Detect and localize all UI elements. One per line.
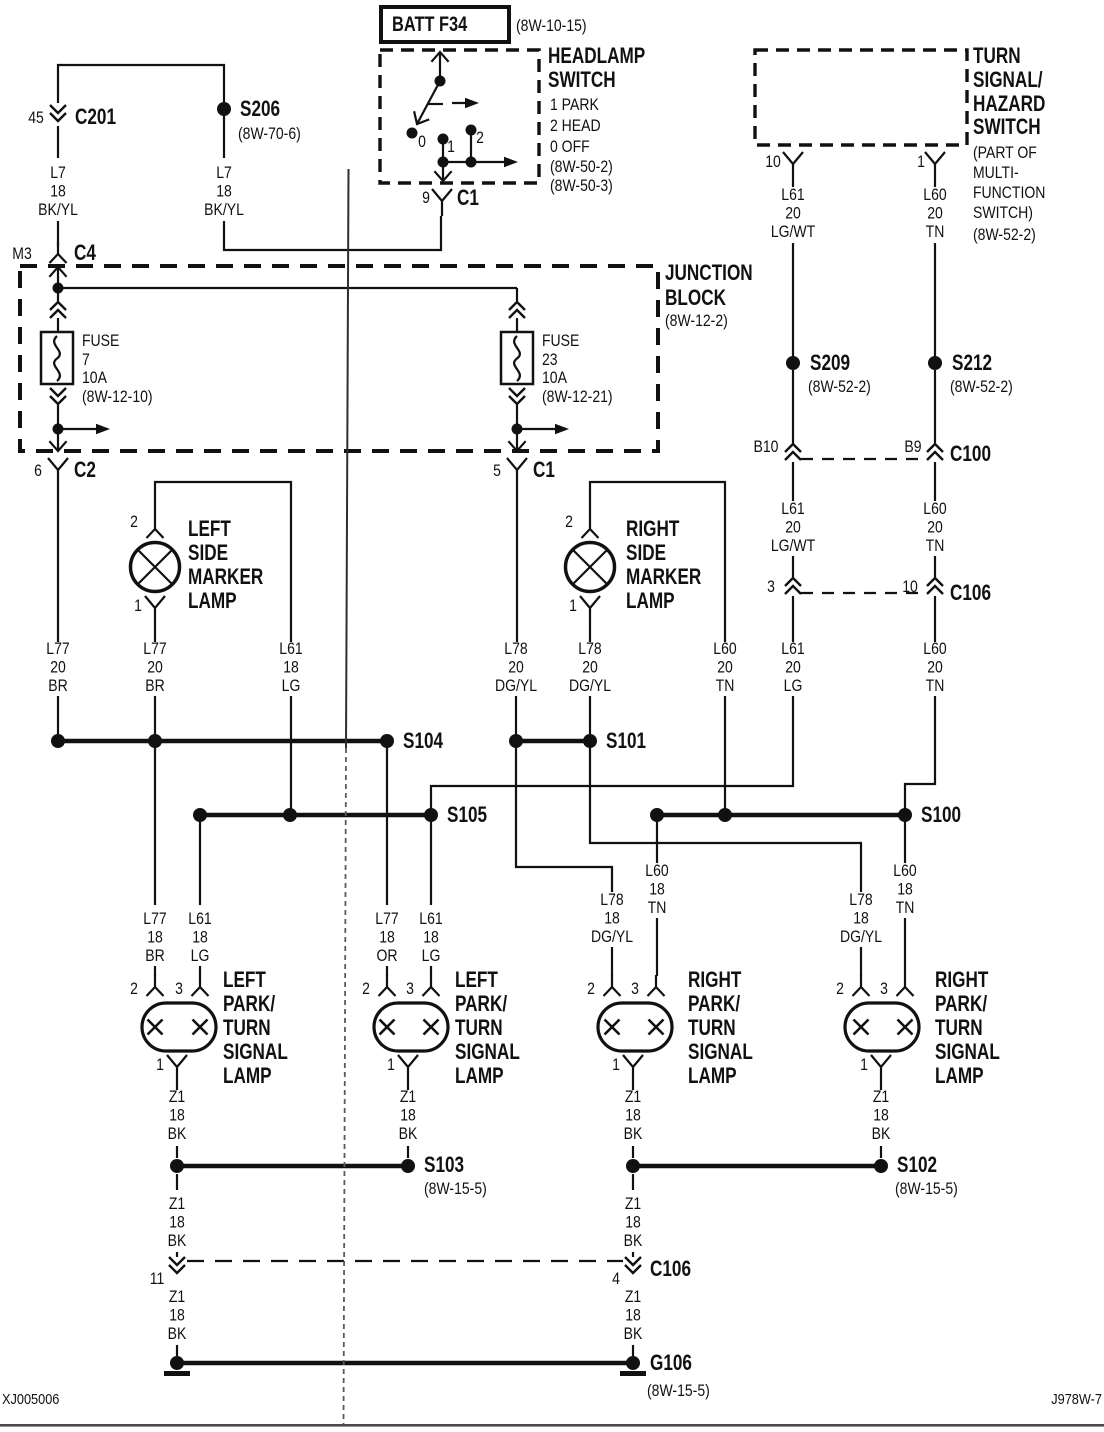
svg-text:HAZARD: HAZARD (973, 92, 1045, 117)
svg-text:DG/YL: DG/YL (495, 677, 537, 695)
svg-text:10A: 10A (82, 369, 108, 387)
svg-text:LAMP: LAMP (935, 1064, 984, 1089)
right park/turn signal lamp pin 2 (853, 975, 870, 996)
svg-text:(8W-12-2): (8W-12-2) (665, 312, 728, 330)
splice S209 (786, 356, 800, 370)
svg-text:L60: L60 (923, 640, 946, 658)
wire - Z1 18 BK below lamp lamp2 (407, 1082, 409, 1090)
wire - Z1 below S102 (632, 1174, 634, 1190)
svg-text:L77: L77 (143, 640, 166, 658)
right park/turn signal lamp caption (lamp3) (688, 968, 753, 1089)
junction dot 2 (466, 157, 477, 168)
wire - top feed from C201 to S206 (58, 65, 224, 103)
svg-text:J978W-7: J978W-7 (1051, 1390, 1102, 1407)
switch wiper pivot dot (435, 76, 446, 87)
svg-text:18: 18 (50, 182, 66, 200)
svg-text:L61: L61 (188, 910, 211, 928)
svg-text:L7: L7 (50, 164, 66, 182)
svg-text:L78: L78 (504, 640, 527, 658)
svg-text:L60: L60 (713, 640, 736, 658)
right park/turn signal lamp caption (lamp4) (935, 968, 1000, 1089)
svg-text:TN: TN (648, 899, 667, 917)
svg-text:FUSE: FUSE (82, 332, 119, 350)
svg-text:C106: C106 (650, 1257, 691, 1282)
svg-text:RIGHT: RIGHT (626, 517, 679, 542)
left park/turn signal lamp pin 1 (lamp1) (167, 1055, 187, 1082)
connector C106 pin 3 (785, 578, 801, 594)
wire - down to S209 (792, 243, 794, 358)
svg-text:XJ005006: XJ005006 (2, 1390, 60, 1407)
svg-text:S102: S102 (897, 1153, 937, 1178)
left park/turn signal lamp pin 3 (423, 975, 440, 996)
right park/turn signal lamp pin 1 (lamp3) (623, 1055, 643, 1082)
svg-text:2: 2 (130, 980, 138, 998)
wire - C1 pin 5 down to S101 (516, 485, 518, 642)
ground symbol left (164, 1371, 190, 1376)
svg-text:1 PARK: 1 PARK (550, 96, 600, 114)
wire - L60 18 TN from S100 to right lamp 2 pin 3 (904, 815, 906, 863)
fold line (dashed lower) (344, 748, 347, 1424)
svg-text:S212: S212 (952, 351, 992, 376)
svg-text:SIDE: SIDE (626, 541, 666, 566)
svg-text:18: 18 (169, 1306, 185, 1324)
splice S101 bus (516, 739, 590, 744)
svg-text:TN: TN (926, 677, 945, 695)
wire - to S104 (154, 696, 156, 741)
right side marker lamp bulb (566, 543, 615, 592)
svg-text:10A: 10A (542, 369, 568, 387)
left park/turn signal lamp pin 2 (147, 975, 164, 996)
svg-text:PARK/: PARK/ (935, 992, 988, 1017)
svg-text:LG/WT: LG/WT (771, 537, 815, 555)
bottom rule (0, 1424, 1104, 1427)
switch position 2 terminal (466, 125, 477, 136)
svg-text:TURN: TURN (223, 1016, 271, 1041)
svg-text:2: 2 (362, 980, 370, 998)
svg-text:RIGHT: RIGHT (935, 968, 988, 993)
connector C201 pin 45 (50, 105, 66, 121)
splice S100 bus (657, 813, 905, 818)
svg-text:18: 18 (147, 928, 163, 946)
svg-text:LG: LG (784, 677, 803, 695)
switch detent tick (427, 103, 443, 105)
svg-text:1: 1 (860, 1056, 868, 1074)
fold line (solid upper) (346, 169, 349, 748)
connector C1 pin 9 (432, 189, 452, 216)
turn signal switch caption (973, 44, 1045, 244)
svg-text:(8W-52-2): (8W-52-2) (950, 378, 1013, 396)
svg-text:2: 2 (476, 129, 484, 147)
right side marker lamp pin 2 (582, 517, 599, 538)
wire - Z1 18 BK below lamp lamp4 (880, 1082, 882, 1090)
svg-text:B9: B9 (904, 438, 921, 456)
left side marker lamp pin 1 (145, 596, 165, 623)
wire - L7 below S206 (223, 116, 225, 158)
ground symbol right (620, 1371, 646, 1376)
feed arrow from C4 into junction block (57, 267, 59, 288)
wire - L60 20 TN to S100 (724, 696, 726, 815)
svg-text:18: 18 (625, 1106, 641, 1124)
switch position 1 terminal (438, 134, 449, 145)
wire - L60 TN to splice S100 (905, 696, 935, 815)
right side marker lamp caption (626, 517, 701, 614)
svg-text:20: 20 (785, 658, 801, 676)
svg-text:L61: L61 (419, 910, 442, 928)
wire - junction block internal bus (58, 287, 517, 289)
fuse 23 upper contact (516, 288, 518, 301)
connector C2 pin 6 (48, 458, 68, 485)
wire - to S101 (589, 696, 591, 741)
svg-text:G106: G106 (650, 1351, 692, 1376)
svg-text:L61: L61 (781, 500, 804, 518)
svg-text:B10: B10 (754, 438, 779, 456)
fuse F23 (501, 332, 533, 384)
svg-text:LG/WT: LG/WT (771, 223, 815, 241)
svg-text:C1: C1 (457, 186, 479, 211)
svg-text:SWITCH): SWITCH) (973, 204, 1033, 222)
svg-text:2: 2 (130, 513, 138, 531)
svg-text:MARKER: MARKER (626, 565, 701, 590)
left park/turn signal lamp pin 3 (192, 975, 209, 996)
svg-text:1: 1 (612, 1056, 620, 1074)
wire - switch output arrow right (443, 161, 510, 163)
svg-text:4: 4 (612, 1270, 620, 1288)
wire - L61 LG below C106 (792, 596, 794, 642)
node - junction block feed dot (53, 283, 64, 294)
wire - L77 18 OR from S104 to left lamp 2 pin 2 (386, 741, 388, 905)
svg-text:LAMP: LAMP (188, 589, 237, 614)
svg-text:20: 20 (50, 658, 66, 676)
svg-text:L61: L61 (279, 640, 302, 658)
svg-text:BK: BK (399, 1125, 418, 1143)
svg-text:18: 18 (216, 182, 232, 200)
svg-text:BK: BK (624, 1325, 643, 1343)
left side marker lamp caption (188, 517, 263, 614)
svg-text:SIGNAL: SIGNAL (935, 1040, 1000, 1065)
svg-text:L77: L77 (46, 640, 69, 658)
junction block caption (665, 261, 753, 330)
svg-text:3: 3 (631, 980, 639, 998)
svg-text:RIGHT: RIGHT (688, 968, 741, 993)
svg-text:10: 10 (765, 153, 781, 171)
svg-text:BK/YL: BK/YL (204, 201, 244, 219)
wire - down to C4 (57, 221, 59, 246)
right park/turn signal lamp pin 2 (604, 975, 621, 996)
wire - position 1 to output (442, 139, 444, 162)
svg-text:LG: LG (282, 677, 301, 695)
svg-text:SIGNAL: SIGNAL (223, 1040, 288, 1065)
svg-text:(8W-12-10): (8W-12-10) (82, 388, 153, 406)
svg-text:20: 20 (927, 658, 943, 676)
svg-text:18: 18 (897, 880, 913, 898)
svg-text:18: 18 (873, 1106, 889, 1124)
svg-text:7: 7 (82, 351, 90, 369)
wire - L60 TN below C106 (934, 596, 936, 642)
wire - L61 LG to splice S105 (431, 696, 793, 815)
svg-text:BK: BK (168, 1232, 187, 1250)
svg-text:L78: L78 (849, 891, 872, 909)
svg-text:18: 18 (625, 1213, 641, 1231)
svg-text:DG/YL: DG/YL (569, 677, 611, 695)
svg-text:Z1: Z1 (873, 1088, 889, 1106)
svg-text:1: 1 (134, 597, 142, 615)
wire - L60 18 TN from S100 to right lamp 1 pin 3 (656, 815, 658, 863)
connector C106 pin 11 (169, 1257, 185, 1273)
wire - S206 branch to headlamp switch C1-9 (224, 216, 441, 250)
svg-text:11: 11 (150, 1270, 165, 1288)
svg-text:20: 20 (785, 518, 801, 536)
svg-text:SIGNAL/: SIGNAL/ (973, 68, 1043, 93)
right park/turn signal lamp pin 3 (897, 975, 914, 996)
svg-text:2: 2 (836, 980, 844, 998)
svg-text:(8W-50-3): (8W-50-3) (550, 177, 613, 195)
svg-text:1: 1 (156, 1056, 164, 1074)
headlamp switch caption (548, 44, 645, 195)
connector pin 10 (783, 152, 803, 179)
left park/turn signal lamp body (lamp1) (142, 1003, 216, 1051)
svg-text:TN: TN (896, 899, 915, 917)
fuse 23 label (542, 332, 613, 406)
svg-text:0: 0 (418, 133, 426, 151)
connector C106 body lower (dashed) (187, 1260, 623, 1262)
svg-text:(8W-15-5): (8W-15-5) (424, 1180, 487, 1198)
svg-text:BR: BR (145, 947, 164, 965)
svg-text:BR: BR (48, 677, 67, 695)
connector C100 body (dashed) (801, 458, 927, 460)
svg-text:DG/YL: DG/YL (591, 928, 633, 946)
svg-text:Z1: Z1 (169, 1288, 185, 1306)
junction block dashed box (20, 266, 658, 451)
svg-text:PARK/: PARK/ (455, 992, 508, 1017)
connector C4 pin M3 (50, 242, 67, 263)
turn signal/hazard switch dashed box (755, 50, 967, 145)
svg-text:(8W-52-2): (8W-52-2) (973, 226, 1036, 244)
splice S105 bus (200, 813, 431, 818)
svg-text:18: 18 (379, 928, 395, 946)
ground bus G106 (177, 1361, 633, 1366)
fuse 23 output branch arrow (517, 428, 559, 430)
headlamp switch feed arrow (439, 52, 441, 81)
svg-text:L60: L60 (923, 186, 946, 204)
svg-text:20: 20 (508, 658, 524, 676)
connector C106 pin 10 (927, 578, 943, 594)
svg-text:BK: BK (624, 1125, 643, 1143)
svg-text:BK: BK (168, 1125, 187, 1143)
svg-text:18: 18 (649, 880, 665, 898)
left park/turn signal lamp body (lamp2) (374, 1003, 448, 1051)
svg-text:S104: S104 (403, 729, 443, 754)
svg-text:20: 20 (717, 658, 733, 676)
svg-text:TN: TN (716, 677, 735, 695)
wire - L60 below C100 (934, 462, 936, 501)
svg-text:BR: BR (145, 677, 164, 695)
svg-text:HEADLAMP: HEADLAMP (548, 44, 645, 69)
svg-text:20: 20 (582, 658, 598, 676)
wire - C2 pin 6 down to S104 (57, 485, 59, 642)
svg-text:LAMP: LAMP (455, 1064, 504, 1089)
svg-text:BK/YL: BK/YL (38, 201, 78, 219)
left park/turn signal lamp pin 2 (379, 975, 396, 996)
svg-text:MARKER: MARKER (188, 565, 263, 590)
wire - right marker pin 2 to L60 branch (590, 482, 725, 642)
svg-text:L77: L77 (375, 910, 398, 928)
fuse 7 output exit arrow (57, 429, 59, 451)
svg-text:L61: L61 (781, 640, 804, 658)
wire - down to C106 pin 10 (934, 556, 936, 577)
svg-text:10: 10 (902, 578, 918, 596)
svg-text:23: 23 (542, 351, 558, 369)
svg-text:45: 45 (28, 109, 44, 127)
left side marker lamp pin 2 (147, 517, 164, 538)
svg-text:LEFT: LEFT (223, 968, 266, 993)
wire - L78 18 DG/YL from S101 to right lamp 1 pin 2 (516, 741, 612, 892)
svg-text:BK: BK (624, 1232, 643, 1250)
wire - Z1 below S103 (176, 1174, 178, 1190)
svg-text:C106: C106 (950, 581, 991, 606)
svg-text:C2: C2 (74, 458, 96, 483)
svg-text:(PART OF: (PART OF (973, 144, 1037, 162)
svg-text:LAMP: LAMP (688, 1064, 737, 1089)
svg-text:TURN: TURN (935, 1016, 983, 1041)
svg-text:LAMP: LAMP (223, 1064, 272, 1089)
splice S104 bus (58, 739, 387, 744)
svg-text:TURN: TURN (973, 44, 1021, 69)
svg-text:9: 9 (422, 189, 430, 207)
left park/turn signal lamp caption (lamp2) (455, 968, 520, 1089)
svg-text:3: 3 (880, 980, 888, 998)
right park/turn signal lamp body (lamp3) (598, 1003, 672, 1051)
right park/turn signal lamp body (lamp4) (845, 1003, 919, 1051)
wire - L77 18 BR to left lamp 1 pin 2 (154, 741, 156, 905)
svg-text:PARK/: PARK/ (688, 992, 741, 1017)
connector pin 1 (925, 152, 945, 179)
wire - down to S212 (934, 243, 936, 358)
svg-text:TURN: TURN (688, 1016, 736, 1041)
connector C1 pin 5 (507, 458, 527, 485)
wire - Z1 18 BK below lamp lamp1 (176, 1082, 178, 1090)
wire - S212 to C100 (934, 370, 936, 443)
svg-text:5: 5 (493, 462, 501, 480)
svg-text:LG: LG (191, 947, 210, 965)
connector C100 pin B10 (785, 444, 801, 460)
svg-text:OR: OR (376, 947, 397, 965)
svg-text:20: 20 (785, 204, 801, 222)
fuse feed box BATT F34 (381, 7, 509, 42)
svg-text:FUSE: FUSE (542, 332, 579, 350)
svg-text:18: 18 (169, 1106, 185, 1124)
svg-text:(8W-10-15): (8W-10-15) (516, 17, 587, 35)
svg-text:2: 2 (565, 513, 573, 531)
node - fuse 23 output dot (512, 424, 523, 435)
wire - L60 from pin 1 (934, 179, 936, 187)
wire - L78 18 DG/YL from S101 to right lamp 2 pin 2 (590, 741, 861, 892)
fuse 7 lower contact (50, 388, 66, 404)
svg-text:C4: C4 (74, 241, 96, 266)
wire - S209 to C100 (792, 370, 794, 443)
svg-text:L77: L77 (143, 910, 166, 928)
wire - L77 below left marker (154, 623, 156, 642)
svg-text:(8W-70-6): (8W-70-6) (238, 125, 301, 143)
svg-text:C100: C100 (950, 442, 991, 467)
svg-text:20: 20 (147, 658, 163, 676)
svg-text:2 HEAD: 2 HEAD (550, 117, 601, 135)
fuse 23 lower contact (509, 388, 525, 404)
svg-text:M3: M3 (12, 245, 31, 263)
svg-text:L61: L61 (781, 186, 804, 204)
svg-text:(8W-15-5): (8W-15-5) (647, 1382, 710, 1400)
svg-text:S209: S209 (810, 351, 850, 376)
fuse 23 output exit arrow (516, 429, 518, 451)
right park/turn signal lamp pin 3 (648, 975, 665, 996)
svg-text:L78: L78 (600, 891, 623, 909)
svg-text:TURN: TURN (455, 1016, 503, 1041)
svg-text:(8W-12-21): (8W-12-21) (542, 388, 613, 406)
svg-text:18: 18 (423, 928, 439, 946)
left park/turn signal lamp pin 1 (lamp2) (398, 1055, 418, 1082)
svg-text:SIGNAL: SIGNAL (455, 1040, 520, 1065)
splice S212 (928, 356, 942, 370)
svg-text:TN: TN (926, 223, 945, 241)
svg-text:L7: L7 (216, 164, 232, 182)
splice S103 bus (177, 1164, 408, 1169)
svg-text:L78: L78 (578, 640, 601, 658)
wire - L61 18 LG to S105 (290, 696, 292, 815)
svg-text:(8W-52-2): (8W-52-2) (808, 378, 871, 396)
junction dot 1 (438, 157, 449, 168)
right side marker lamp pin 1 (580, 596, 600, 623)
svg-text:LG: LG (422, 947, 441, 965)
svg-text:3: 3 (406, 980, 414, 998)
wire - down to C106 (792, 556, 794, 577)
svg-text:18: 18 (604, 909, 620, 927)
svg-text:DG/YL: DG/YL (840, 928, 882, 946)
svg-text:SIDE: SIDE (188, 541, 228, 566)
node - fuse 7 output dot (53, 424, 64, 435)
connector C106 body (dashed) (801, 592, 927, 594)
svg-text:BLOCK: BLOCK (665, 286, 727, 311)
svg-text:3: 3 (175, 980, 183, 998)
svg-text:FUNCTION: FUNCTION (973, 184, 1045, 202)
switch wiper arm arrow (417, 81, 440, 124)
svg-text:1: 1 (447, 138, 455, 156)
svg-text:Z1: Z1 (625, 1288, 641, 1306)
svg-text:C201: C201 (75, 105, 116, 130)
splice S206 (217, 102, 231, 116)
left side marker lamp bulb (131, 543, 180, 592)
svg-text:SWITCH: SWITCH (548, 68, 616, 93)
svg-text:(8W-50-2): (8W-50-2) (550, 158, 613, 176)
svg-text:1: 1 (569, 597, 577, 615)
wire - L7 below C201 (57, 126, 59, 158)
svg-text:1: 1 (917, 153, 925, 171)
right park/turn signal lamp pin 1 (lamp4) (871, 1055, 891, 1082)
wire - L61 18 LG to left lamp 1 pin 3 (199, 815, 201, 905)
svg-text:C1: C1 (533, 458, 555, 483)
fuse 7 output branch arrow (58, 428, 100, 430)
svg-text:JUNCTION: JUNCTION (665, 261, 753, 286)
svg-text:L60: L60 (645, 862, 668, 880)
svg-text:S103: S103 (424, 1153, 464, 1178)
svg-text:18: 18 (853, 909, 869, 927)
svg-text:LAMP: LAMP (626, 589, 675, 614)
svg-text:18: 18 (283, 658, 299, 676)
svg-text:0 OFF: 0 OFF (550, 138, 590, 156)
svg-text:18: 18 (625, 1306, 641, 1324)
svg-text:Z1: Z1 (169, 1195, 185, 1213)
svg-text:MULTI-: MULTI- (973, 164, 1019, 182)
svg-text:BK: BK (872, 1125, 891, 1143)
wire - L61 18 LG from S105 to left lamp 2 pin 3 (430, 815, 432, 905)
